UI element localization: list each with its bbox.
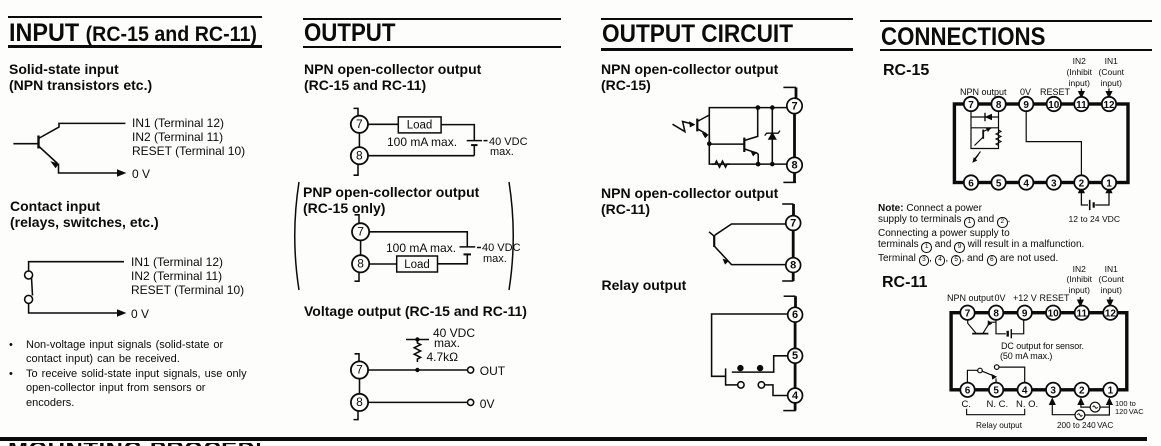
svg-text:7: 7 — [965, 309, 971, 320]
svg-text:4: 4 — [1023, 178, 1029, 189]
svg-text:12: 12 — [1105, 309, 1117, 320]
svg-text:11: 11 — [1076, 100, 1087, 111]
svg-text:8: 8 — [996, 100, 1002, 111]
svg-text:12: 12 — [1103, 100, 1115, 111]
svg-text:2: 2 — [1079, 386, 1085, 397]
svg-text:2: 2 — [1079, 178, 1085, 189]
svg-text:10: 10 — [1048, 100, 1060, 111]
svg-text:8: 8 — [993, 309, 999, 320]
svg-text:3: 3 — [1050, 386, 1056, 397]
svg-text:1: 1 — [1108, 386, 1114, 397]
svg-text:11: 11 — [1077, 309, 1088, 320]
svg-text:5: 5 — [993, 386, 999, 397]
svg-text:7: 7 — [968, 100, 974, 111]
svg-text:1: 1 — [1106, 178, 1112, 189]
svg-text:3: 3 — [1051, 178, 1057, 189]
svg-text:9: 9 — [1023, 100, 1029, 111]
svg-text:10: 10 — [1048, 309, 1060, 320]
svg-text:5: 5 — [996, 178, 1002, 189]
svg-text:9: 9 — [1022, 309, 1028, 320]
svg-text:4: 4 — [1022, 386, 1028, 397]
svg-text:6: 6 — [965, 386, 971, 397]
svg-text:6: 6 — [968, 178, 974, 189]
